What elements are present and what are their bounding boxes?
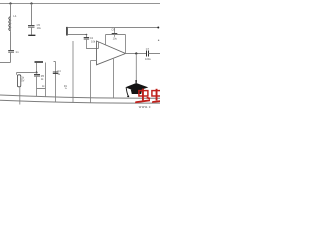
capacitor C1	[8, 50, 14, 52]
op-amp U1	[97, 41, 126, 65]
svg-text:L1: L1	[13, 14, 17, 18]
resistor R2 lead	[72, 41, 74, 103]
inductor L1	[9, 17, 11, 31]
svg-text:C5: C5	[37, 23, 41, 27]
wire	[10, 4, 12, 17]
node junction dot A	[9, 2, 11, 4]
wire	[87, 39, 99, 49]
wire	[0, 52, 11, 63]
wire	[17, 73, 37, 75]
node junction dot	[36, 72, 38, 74]
wire	[19, 87, 21, 105]
wire mic top lead	[68, 27, 158, 29]
wire	[31, 27, 33, 35]
wire inverting input	[91, 60, 97, 62]
wire	[149, 53, 161, 55]
svg-text:C7: C7	[146, 47, 150, 51]
svg-text:100u: 100u	[145, 57, 151, 61]
capacitor C7	[146, 51, 148, 57]
top supply rail	[0, 3, 160, 5]
svg-text:10u: 10u	[37, 26, 42, 30]
bottom rail lower	[0, 100, 160, 103]
node antenna end dot	[157, 27, 159, 29]
svg-text:1n: 1n	[15, 50, 19, 54]
wire	[37, 76, 46, 96]
watermark graduation cap	[125, 80, 148, 97]
wire output	[126, 53, 147, 55]
transformer core bar T1	[35, 61, 44, 63]
svg-text:5V: 5V	[21, 80, 24, 83]
battery / crystal box B1	[17, 75, 20, 87]
ground	[28, 34, 35, 36]
resistor R4 lead	[45, 63, 47, 97]
node junction dot B	[30, 2, 32, 4]
watermark chong character 2	[152, 89, 161, 103]
wire mic bottom lead	[68, 34, 87, 36]
wire	[36, 63, 38, 73]
stray mark	[158, 40, 159, 41]
capacitor C2	[86, 35, 88, 38]
resistor R3 chain	[54, 62, 56, 103]
svg-text:C6: C6	[111, 28, 115, 32]
bottom rail upper	[0, 95, 160, 98]
wire	[10, 31, 12, 50]
microphone BM electret bar	[66, 27, 68, 36]
capacitor C6	[114, 28, 116, 34]
capacitor C3	[34, 74, 40, 76]
wire bias drop	[90, 61, 92, 103]
svg-text:www.c: www.c	[139, 105, 151, 109]
wire	[31, 4, 33, 26]
svg-text:10k: 10k	[91, 39, 96, 43]
svg-text:10u: 10u	[113, 37, 118, 41]
wire feedback loop	[106, 35, 126, 54]
watermark chong character 1	[135, 89, 150, 104]
wire to bottom	[135, 54, 137, 83]
node junction	[86, 34, 88, 36]
node output junction dot	[135, 52, 137, 54]
wire op-amp power pin	[113, 59, 115, 98]
capacitor C5	[28, 25, 35, 27]
